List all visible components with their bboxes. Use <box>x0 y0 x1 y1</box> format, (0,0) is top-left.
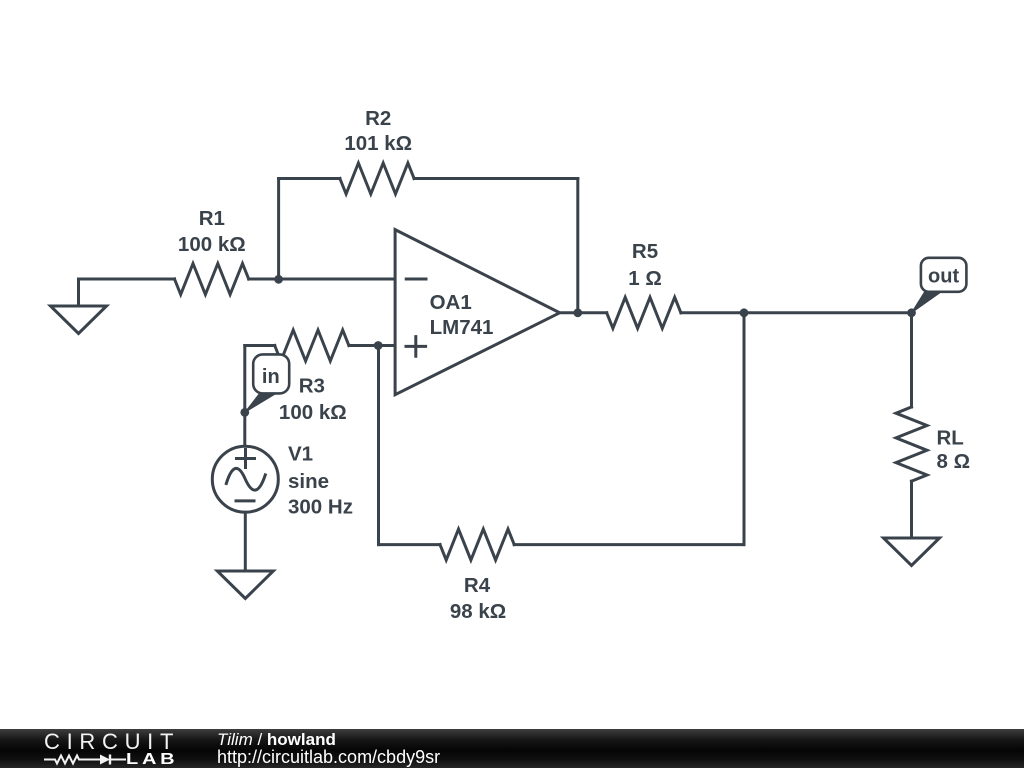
V1 minus mark <box>236 499 254 502</box>
wire R3 left lead <box>245 344 275 347</box>
wire R2 top left <box>279 177 340 180</box>
svg-text:sine: sine <box>288 470 329 493</box>
wire R5 to out node <box>681 311 912 314</box>
svg-text:V1: V1 <box>288 442 313 465</box>
svg-text:100 kΩ: 100 kΩ <box>178 233 246 256</box>
svg-text:RL: RL <box>937 427 964 450</box>
node C: op-amp output / R2 junction <box>573 308 582 317</box>
ground (RL) <box>884 538 940 566</box>
svg-text:101 kΩ: 101 kΩ <box>344 132 412 155</box>
wire RL to ground <box>910 481 913 537</box>
svg-text:in: in <box>262 366 280 388</box>
resistor R4 <box>440 529 514 560</box>
footer url <box>217 747 440 768</box>
CircuitLab logo wordmark LAB <box>126 751 178 769</box>
svg-text:out: out <box>928 265 959 287</box>
wire out node down to RL <box>910 313 913 407</box>
wire R3 to op-amp plus input <box>349 344 395 347</box>
wire R4 bottom left <box>379 543 441 546</box>
node A: R1/R2/minus junction <box>274 275 283 284</box>
svg-text:R4: R4 <box>464 574 491 597</box>
node in: flag attachment on V1 wire <box>240 408 249 417</box>
resistor RL <box>896 407 927 481</box>
wire R3 left vertical to V1 <box>243 346 246 447</box>
wire R2 right vertical to output <box>576 179 579 313</box>
wire V1 to ground <box>244 512 247 570</box>
op-amp minus input mark <box>406 278 426 281</box>
svg-text:R2: R2 <box>365 107 391 130</box>
wire R1 to op-amp minus input <box>249 278 395 281</box>
svg-text:R5: R5 <box>632 240 658 263</box>
wire R2 left vertical <box>277 179 280 280</box>
svg-text:98 kΩ: 98 kΩ <box>450 600 506 623</box>
svg-text:8 Ω: 8 Ω <box>937 450 971 473</box>
wire R4 bottom right <box>514 543 744 546</box>
wire R1 left lead and ground stub <box>79 279 175 305</box>
svg-text:R3: R3 <box>299 375 325 398</box>
wire R4 right vertical <box>743 313 746 545</box>
svg-text:LM741: LM741 <box>430 316 494 339</box>
op-amp OA1 triangle <box>395 230 560 395</box>
svg-text:R1: R1 <box>199 207 225 230</box>
footer title Tilim / howland <box>217 730 336 750</box>
V1 plus mark <box>237 450 255 468</box>
wire op-amp output <box>560 311 607 314</box>
resistor R5 <box>607 297 681 328</box>
node D: R5/R4 junction <box>740 308 749 317</box>
flag in <box>245 354 289 412</box>
ground (V1) <box>217 571 273 599</box>
svg-text:300 Hz: 300 Hz <box>288 496 353 519</box>
svg-text:1 Ω: 1 Ω <box>628 267 662 290</box>
op-amp plus input mark <box>406 337 426 357</box>
CircuitLab logo wordmark CIRCUIT <box>44 729 180 755</box>
wire R4 left vertical to plus node <box>377 346 380 545</box>
flag out <box>912 258 967 313</box>
resistor R1 <box>175 264 249 295</box>
resistor R3 <box>275 330 349 361</box>
node B: R3/plus/R4 junction <box>374 341 383 350</box>
CircuitLab logo resistor-diode squiggle <box>42 751 128 769</box>
voltage source V1 circle <box>212 446 278 512</box>
wire R2 top right <box>414 177 578 180</box>
node out: out flag junction <box>907 308 916 317</box>
footer bar <box>0 729 1024 768</box>
V1 sine wave <box>226 468 265 490</box>
resistor R2 <box>340 163 414 194</box>
ground (left, R1) <box>51 306 107 334</box>
svg-text:100 kΩ: 100 kΩ <box>279 401 347 424</box>
svg-text:OA1: OA1 <box>430 291 472 314</box>
